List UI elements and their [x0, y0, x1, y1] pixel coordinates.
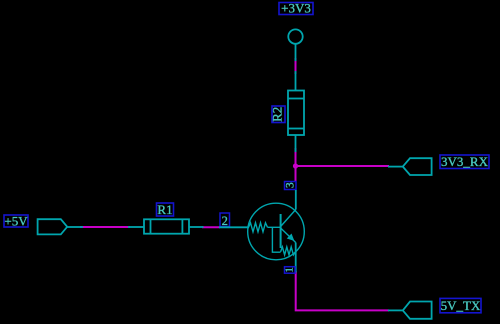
svg-text:1: 1: [284, 267, 295, 272]
resistor R1 body: [144, 219, 189, 233]
label R1: [157, 203, 174, 216]
wire +5V port to R1: [80, 226, 130, 228]
wire R1 to Q1 base: [202, 226, 220, 228]
port 3V3_RX: [403, 158, 432, 175]
wire R2 to node A: [295, 148, 297, 182]
port +5V pin: [67, 226, 83, 228]
resistor R2 body: [288, 91, 304, 136]
wire Q1 emitter to 5V_TX port: [296, 271, 389, 310]
svg-text:R2: R2: [270, 107, 285, 122]
svg-text:2: 2: [222, 214, 228, 228]
label +5V: [4, 215, 28, 227]
transistor Q1 base bar: [280, 214, 282, 248]
svg-text:3V3_RX: 3V3_RX: [441, 154, 489, 169]
pin 2 base pin wire: [219, 226, 249, 228]
wire +3V3 to R2: [295, 58, 297, 74]
transistor Q1 base line: [268, 226, 281, 228]
power port +3V3 circle: [288, 29, 302, 43]
port 5V_TX: [403, 302, 432, 319]
resistor R2 pins: [295, 71, 297, 90]
transistor Q1 pulldown resistor tap: [272, 227, 280, 252]
port 5V_TX pin: [388, 309, 403, 311]
pin 3 collector pin wire: [295, 190, 297, 210]
wire node A to 3V3_RX port: [295, 165, 390, 167]
transistor Q1 collector diagonal: [281, 210, 296, 227]
pin number 1: [285, 267, 296, 274]
svg-text:3: 3: [285, 182, 297, 188]
transistor Q1 emitter arrow: [287, 234, 294, 240]
port 3V3_RX pin: [388, 166, 403, 168]
transistor Q1 base input resistor zigzag: [249, 223, 268, 232]
transistor Q1 emitter diagonal: [281, 228, 296, 243]
transistor Q1 circle: [248, 203, 305, 260]
pin 1 emitter pin wire: [295, 243, 297, 273]
pin number 3: [285, 182, 297, 190]
port +5V: [38, 219, 68, 234]
transistor Q1 pulldown resistor zigzag: [281, 247, 296, 255]
pin number 2: [220, 213, 230, 227]
svg-text:+3V3: +3V3: [281, 1, 311, 16]
label 3V3_RX: [440, 155, 489, 169]
resistor R1 pins: [128, 226, 144, 228]
label +3V3: [279, 3, 313, 15]
power port +3V3 pin: [295, 44, 297, 62]
svg-text:R1: R1: [157, 202, 172, 217]
junction node A: [293, 163, 298, 168]
svg-text:+5V: +5V: [4, 213, 28, 228]
svg-text:5V_TX: 5V_TX: [441, 298, 481, 313]
label 5V_TX: [440, 298, 481, 312]
label R2: [272, 106, 285, 123]
